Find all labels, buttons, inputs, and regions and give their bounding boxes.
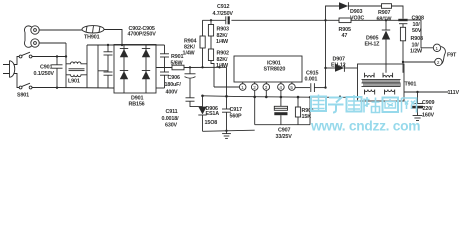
pin 1 lead — [242, 82, 244, 84]
resistor R907 — [382, 4, 392, 9]
wire R903 to R902 — [210, 36, 212, 49]
svg-text:0.0018/: 0.0018/ — [162, 116, 180, 122]
svg-text:33/25V: 33/25V — [276, 134, 293, 140]
ground symbol — [222, 131, 231, 139]
svg-text:S901: S901 — [17, 93, 29, 99]
svg-text:630V: 630V — [165, 123, 178, 129]
svg-text:C917: C917 — [230, 107, 242, 113]
junction R904 column top — [202, 20, 204, 36]
junction C907 top — [280, 96, 283, 99]
svg-text:1: 1 — [241, 85, 244, 90]
wire R905 to D905 node — [351, 19, 386, 21]
svg-text:560P: 560P — [230, 113, 243, 119]
svg-text:R902: R902 — [217, 51, 229, 57]
node vertical left of choke — [65, 43, 67, 88]
junction caps top — [107, 44, 109, 46]
diode D905 — [382, 20, 390, 72]
capacitor C906 electrolytic — [185, 67, 196, 97]
svg-text:220/: 220/ — [423, 106, 434, 112]
svg-text:68/1W: 68/1W — [377, 16, 393, 22]
connector pin 2 — [435, 58, 442, 65]
svg-text:2: 2 — [253, 85, 256, 90]
secondary output wire — [404, 91, 448, 93]
earth tap vertical — [98, 45, 108, 88]
junction C915 drain — [324, 86, 326, 88]
R904 lead to rail — [202, 48, 204, 67]
svg-text:L901: L901 — [68, 79, 80, 85]
switch S901 pole 2 — [19, 83, 32, 89]
wire y20 to output corner — [386, 19, 400, 21]
bridge diode 2 — [120, 71, 128, 80]
wire to pin 1 — [214, 86, 239, 88]
junction C909 — [416, 91, 418, 93]
svg-text:EH-1Z: EH-1Z — [365, 42, 381, 48]
capacitor C912 — [226, 16, 240, 24]
capacitor C904 — [160, 45, 169, 72]
pin2 wire down — [254, 90, 256, 124]
junction snubber column top — [324, 19, 326, 21]
pin 4 lead — [280, 82, 282, 84]
C909 ground — [413, 116, 423, 121]
switch S901 pole 1 — [19, 52, 32, 58]
svg-text:ES1A: ES1A — [206, 111, 220, 117]
connector pin 1 — [433, 44, 440, 51]
svg-text:T901: T901 — [405, 82, 417, 88]
wire R907 to C908 — [392, 6, 404, 19]
inlet plug hook wires — [25, 26, 32, 47]
capacitor C909 electrolytic — [412, 92, 423, 116]
svg-text:C907: C907 — [278, 128, 290, 134]
svg-text:0.1/250V: 0.1/250V — [34, 71, 55, 77]
low rail right riser — [309, 97, 311, 125]
resistor R903 — [208, 25, 213, 37]
mid rail y98 — [203, 96, 358, 98]
T901 top winding left — [365, 73, 375, 78]
svg-text:10/: 10/ — [413, 22, 421, 28]
svg-text:160V: 160V — [422, 112, 435, 118]
thermistor TH901 — [82, 26, 104, 33]
svg-text:4.7/250V: 4.7/250V — [213, 11, 234, 17]
svg-text:TH901: TH901 — [84, 35, 100, 41]
capacitor C901 — [52, 57, 63, 89]
svg-text:D903: D903 — [350, 9, 362, 15]
line filter choke L901 winding 2 — [66, 75, 87, 77]
svg-text:1: 1 — [436, 46, 439, 51]
capacitor C907 electrolytic — [274, 98, 287, 125]
junction D906 top — [201, 95, 204, 98]
wire TH901 to bridge top — [104, 30, 122, 46]
pin 3 — [263, 84, 270, 91]
wire rail67 corner down to pin1 — [226, 67, 228, 109]
svg-text:F9T: F9T — [447, 53, 457, 59]
svg-text:5/6W: 5/6W — [171, 60, 184, 66]
resistor R901 — [172, 65, 184, 70]
svg-text:5: 5 — [290, 85, 293, 90]
watermark line 1 — [311, 95, 417, 113]
svg-text:R905: R905 — [339, 27, 351, 33]
bridge diode 4 — [142, 71, 150, 80]
junction D905 — [385, 19, 387, 21]
svg-text:2: 2 — [437, 60, 440, 65]
wire socket lower to node — [39, 42, 66, 44]
capacitor C915 — [311, 83, 326, 92]
junction transformer left pin — [357, 96, 359, 98]
drain column — [325, 20, 327, 87]
wire C912 to right column — [240, 19, 326, 21]
transformer T901 box — [358, 64, 405, 101]
wire pin5 to C915 — [295, 87, 310, 89]
svg-text:C906: C906 — [168, 75, 180, 81]
junction drain D907 — [324, 67, 326, 69]
svg-text:4: 4 — [279, 85, 282, 90]
svg-text:C915: C915 — [306, 70, 318, 76]
svg-text:C908: C908 — [412, 16, 424, 22]
svg-text:400V: 400V — [166, 90, 179, 96]
HV+ rail y67 — [156, 66, 227, 68]
junction choke node — [65, 55, 67, 57]
wire plug to switch 2 — [14, 74, 19, 88]
diode D903 — [339, 2, 382, 10]
junction riser top — [309, 96, 311, 98]
choke right vertical to rails — [86, 45, 88, 88]
junction pin4 — [280, 90, 282, 98]
capacitor C903 — [104, 72, 113, 88]
junction R906 top — [297, 96, 300, 99]
junction rail98 at column — [225, 95, 228, 98]
wire switch1 to choke node — [32, 56, 66, 58]
pin 5 — [289, 84, 296, 91]
wire switch2 bottom rail to bridge — [32, 87, 114, 90]
svg-text:1/4W: 1/4W — [183, 51, 196, 57]
svg-text:1/2W: 1/2W — [410, 49, 423, 55]
bottom rail bridge right — [156, 87, 165, 89]
svg-text:IC901: IC901 — [267, 60, 281, 66]
junction C901 top — [56, 55, 58, 57]
line filter choke L901 winding 1 — [66, 62, 87, 64]
svg-text:47: 47 — [342, 33, 348, 39]
svg-text:STR8020: STR8020 — [264, 67, 286, 73]
ic IC901 STR8020 — [234, 56, 302, 82]
svg-text:0.001: 0.001 — [305, 77, 318, 83]
capacitor C908 electrolytic — [398, 19, 407, 28]
T901 core band — [362, 80, 401, 87]
svg-text:1/4W: 1/4W — [216, 39, 229, 45]
bridge diode 3 leads — [145, 45, 147, 94]
junction C917 ground — [225, 130, 227, 132]
T901 bottom winding left — [365, 90, 375, 95]
resistor R908 — [400, 27, 405, 41]
wire C908 plate to connector riser — [408, 20, 434, 48]
svg-text:10/: 10/ — [412, 42, 420, 48]
svg-text:www. cndzz. com: www. cndzz. com — [310, 119, 420, 134]
junction R903 top — [210, 19, 212, 21]
wire R908 to connector pin 2 — [403, 41, 435, 62]
junction pin3 rail — [265, 90, 267, 97]
svg-text:82K/: 82K/ — [217, 57, 228, 63]
resistor R902 — [208, 49, 213, 61]
wire plug to switch 1 — [14, 57, 19, 65]
svg-text:3: 3 — [265, 85, 268, 90]
R902 lead down to pin1 wire — [211, 61, 214, 88]
capacitor C917 — [222, 109, 231, 131]
junction R904 rail — [201, 66, 203, 68]
resistor R906 — [295, 98, 300, 125]
T901 bottom winding right — [385, 90, 395, 95]
svg-text:180uF/: 180uF/ — [165, 82, 182, 88]
svg-text:82K/: 82K/ — [217, 33, 228, 39]
svg-text:15O8: 15O8 — [205, 120, 218, 126]
pin 5 lead — [291, 82, 293, 84]
svg-text:1/4W: 1/4W — [216, 63, 229, 69]
snubber riser to top wire — [326, 6, 340, 20]
svg-text:R903: R903 — [217, 27, 229, 33]
R903 lead — [210, 20, 212, 24]
capacitor C911 — [186, 98, 203, 107]
svg-text:R908: R908 — [411, 36, 423, 42]
choke L901 core — [69, 69, 85, 71]
bridge diode 1 leads — [123, 45, 125, 94]
diode D906 — [198, 96, 206, 132]
bridge diode 1 — [120, 49, 128, 58]
svg-text:50V: 50V — [412, 28, 422, 34]
pin 2 — [251, 84, 258, 91]
junction R908 secondary — [402, 61, 404, 63]
mains plug P — [3, 61, 15, 77]
connector brace — [441, 47, 445, 64]
wire into transformer secondary top — [402, 62, 404, 73]
AC inlet socket upper terminal — [31, 26, 39, 34]
T901 top winding right — [383, 73, 393, 78]
bridge rectifier D901 box — [114, 45, 156, 94]
junction C906 top — [189, 66, 191, 68]
svg-text:C909: C909 — [422, 100, 434, 106]
svg-text:RB156: RB156 — [129, 102, 145, 108]
ground rail bottom left — [203, 130, 255, 131]
AC inlet socket lower terminal — [31, 39, 39, 47]
junction bridge ac top — [121, 44, 123, 46]
junction rail67 node — [218, 66, 220, 68]
pin 4 — [278, 84, 285, 91]
top feed wire y20 — [203, 19, 226, 21]
svg-text:111V: 111V — [448, 90, 460, 96]
wire socket upper to TH901 — [39, 29, 82, 31]
svg-text:4700P/250V: 4700P/250V — [128, 31, 157, 37]
pin 3 lead — [265, 82, 267, 84]
capacitor C902 — [104, 45, 113, 72]
diode D907 — [326, 64, 358, 72]
resistor R904 — [200, 36, 205, 48]
top AC rail y45 — [87, 44, 165, 46]
svg-text:D905: D905 — [366, 36, 378, 42]
svg-text:C912: C912 — [217, 4, 229, 10]
junction mid rail right — [339, 96, 341, 98]
resistor R905 — [339, 18, 351, 23]
bridge diode 3 — [142, 49, 150, 58]
junction C901 bottom — [56, 87, 58, 89]
svg-text:C911: C911 — [166, 109, 178, 115]
pin 2 lead — [254, 82, 256, 84]
svg-text:EH-12: EH-12 — [331, 62, 346, 68]
svg-text:R907: R907 — [378, 10, 390, 16]
svg-text:C901: C901 — [40, 64, 52, 70]
pin 1 — [239, 84, 246, 91]
capacitor C905 — [160, 72, 169, 88]
low rail y126 — [255, 124, 310, 126]
wire y20 to R905 — [326, 19, 340, 21]
